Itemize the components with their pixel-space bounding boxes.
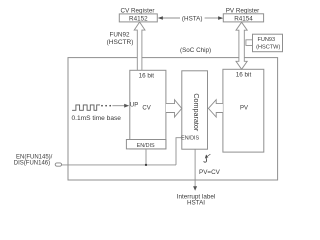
svg-text:PV=CV: PV=CV	[199, 169, 221, 176]
svg-text:PV: PV	[240, 106, 248, 112]
svg-text:16 bit: 16 bit	[236, 71, 252, 78]
svg-text:(HSTA): (HSTA)	[182, 16, 203, 23]
svg-text:CV: CV	[142, 106, 150, 112]
svg-text:EN(FUN145)/: EN(FUN145)/	[16, 155, 53, 161]
svg-text:(HSCTR): (HSCTR)	[107, 39, 134, 46]
svg-text:HSTAI: HSTAI	[187, 200, 205, 207]
svg-text:FUN93: FUN93	[257, 37, 275, 43]
svg-text:EN/DIS: EN/DIS	[137, 143, 155, 149]
svg-text:16 bit: 16 bit	[139, 72, 155, 79]
svg-text:0.1mS time base: 0.1mS time base	[72, 115, 122, 122]
svg-text:(SoC Chip): (SoC Chip)	[180, 47, 211, 54]
svg-text:R4152: R4152	[129, 16, 148, 23]
svg-text:EN/DIS: EN/DIS	[181, 136, 199, 142]
svg-text:(HSCTW): (HSCTW)	[256, 45, 280, 51]
svg-text:Comparator: Comparator	[192, 93, 201, 132]
svg-text:UP: UP	[130, 102, 138, 108]
svg-text:FUN92: FUN92	[110, 32, 130, 39]
svg-text:R4154: R4154	[234, 16, 253, 23]
svg-text:DIS(FUN146): DIS(FUN146)	[14, 161, 50, 167]
